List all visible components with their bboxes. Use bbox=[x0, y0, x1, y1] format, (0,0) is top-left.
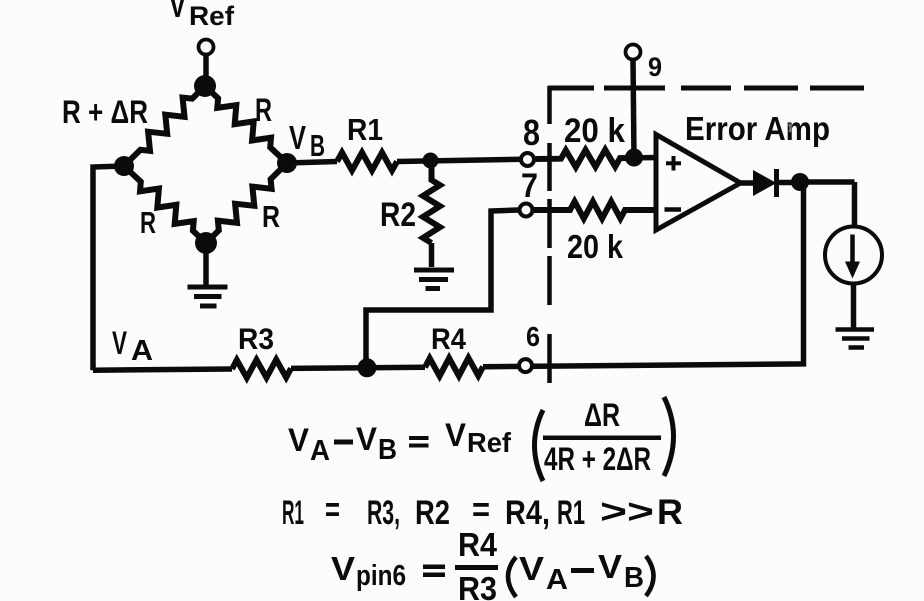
svg-text:V: V bbox=[598, 548, 622, 585]
svg-text:9: 9 bbox=[648, 52, 662, 82]
svg-text:B: B bbox=[624, 562, 644, 594]
node bridge top bbox=[194, 75, 216, 97]
svg-text:B: B bbox=[310, 128, 325, 163]
op-amp minus sign bbox=[665, 207, 682, 212]
svg-text:R: R bbox=[255, 92, 272, 128]
dashed boundary vertical bbox=[547, 86, 552, 383]
svg-text:R2: R2 bbox=[415, 494, 450, 532]
terminal VRef bbox=[199, 40, 214, 55]
svg-text:6: 6 bbox=[526, 321, 540, 352]
wire bottom VA bbox=[93, 369, 232, 370]
dashed boundary horizontal bbox=[548, 86, 864, 91]
resistor R (bridge left-bottom arm) bbox=[124, 166, 206, 243]
svg-text:R: R bbox=[262, 199, 280, 234]
label R+dR bbox=[62, 94, 148, 130]
equation 3: Vpin6 = R4/R3 (VA - VB) bbox=[331, 526, 654, 601]
svg-text:A: A bbox=[131, 335, 153, 367]
svg-text:R: R bbox=[140, 205, 156, 240]
ground R2 bbox=[414, 270, 454, 289]
label 8 bbox=[523, 112, 540, 153]
svg-text:20 k: 20 k bbox=[564, 112, 625, 150]
svg-text:=: = bbox=[325, 491, 340, 529]
resistor R+dR (bridge top-left arm) bbox=[124, 86, 205, 166]
node R1-R2 bbox=[423, 153, 439, 169]
label 20k top bbox=[564, 112, 625, 150]
svg-text:R4: R4 bbox=[458, 526, 498, 563]
wire feedback output to pin6 line bbox=[483, 182, 804, 367]
svg-text:8: 8 bbox=[523, 112, 540, 153]
svg-text:A: A bbox=[546, 564, 568, 596]
svg-text:7: 7 bbox=[521, 167, 538, 205]
wire to op-amp plus input bbox=[627, 155, 656, 161]
wire R1 to pin8 bbox=[397, 159, 536, 162]
svg-text:V: V bbox=[519, 550, 544, 587]
op-amp plus sign bbox=[666, 156, 681, 171]
node output bbox=[791, 173, 809, 191]
svg-text:pin6: pin6 bbox=[356, 560, 406, 592]
node bridge right VB bbox=[277, 153, 297, 173]
ground current source bbox=[836, 330, 875, 348]
wire bbox=[203, 55, 209, 86]
label 9 bbox=[648, 52, 662, 82]
op-amp U1 Error Amp bbox=[656, 135, 741, 231]
terminal pin8 bbox=[521, 153, 534, 166]
wire VB to R1 bbox=[287, 162, 337, 164]
svg-text:4R + 2ΔR: 4R + 2ΔR bbox=[544, 441, 651, 477]
resistor R (bridge bottom-right arm) bbox=[206, 163, 287, 243]
wire current source to ground bbox=[851, 284, 857, 330]
scan speck bbox=[789, 124, 791, 132]
node plus input bbox=[625, 149, 643, 167]
svg-text:R4: R4 bbox=[431, 323, 466, 356]
wire R2 to ground bbox=[429, 243, 435, 267]
terminal pin7 bbox=[520, 204, 533, 217]
svg-text:20 k: 20 k bbox=[567, 228, 624, 265]
node R3-R4 bbox=[358, 358, 377, 377]
resistor R4 bbox=[425, 358, 483, 376]
diode D1 bbox=[753, 170, 777, 196]
svg-text:V: V bbox=[331, 550, 355, 587]
resistor R3 bbox=[232, 360, 291, 378]
label Error Amp bbox=[685, 110, 830, 147]
svg-text:A: A bbox=[310, 435, 330, 467]
label R3 bbox=[238, 323, 274, 356]
wire op-amp output bbox=[740, 180, 755, 186]
resistor R2 bbox=[423, 166, 440, 243]
label R4 bbox=[431, 323, 466, 356]
svg-text:=: = bbox=[472, 491, 490, 529]
svg-text:R: R bbox=[657, 493, 683, 532]
resistor R1 bbox=[337, 153, 397, 171]
svg-text:R3: R3 bbox=[238, 323, 274, 356]
wire pin7 to inverting input bbox=[366, 210, 518, 368]
wire R3 to R4 bbox=[291, 367, 425, 368]
wire pin9 down bbox=[633, 60, 634, 157]
svg-text:R + ΔR: R + ΔR bbox=[62, 94, 148, 130]
svg-text:R3,: R3, bbox=[367, 494, 400, 532]
svg-text:R1: R1 bbox=[282, 494, 304, 532]
svg-text:V: V bbox=[356, 421, 378, 457]
equation 2: R1 = R3, R2 = R4, R1 >> R bbox=[282, 491, 683, 532]
svg-text:R1: R1 bbox=[557, 494, 585, 532]
svg-text:Ref: Ref bbox=[189, 1, 235, 31]
label 20k bottom bbox=[567, 228, 624, 265]
label R bottom-right bbox=[262, 199, 280, 234]
equation 1: VA - VB = VRef (dR / (4R+2dR)) bbox=[288, 397, 674, 481]
resistor R (bridge top-right arm) bbox=[205, 86, 287, 163]
svg-text:ΔR: ΔR bbox=[584, 397, 620, 433]
svg-text:V: V bbox=[288, 422, 310, 458]
svg-text:V: V bbox=[112, 325, 127, 361]
svg-text:V: V bbox=[289, 119, 306, 156]
svg-text:V: V bbox=[169, 0, 186, 25]
label VB bbox=[289, 119, 325, 163]
wire output to current source bbox=[800, 182, 855, 227]
label VRef bbox=[169, 0, 235, 31]
label R1 bbox=[347, 112, 383, 147]
label R bottom-left bbox=[140, 205, 156, 240]
resistor 20k top bbox=[536, 150, 627, 167]
wire diode to node bbox=[779, 180, 800, 186]
resistor 20k bottom bbox=[534, 202, 656, 219]
svg-text:V: V bbox=[445, 417, 467, 453]
svg-text:Ref: Ref bbox=[467, 427, 512, 458]
wire bridge bottom to ground bbox=[203, 252, 209, 286]
svg-text:Error Amp: Error Amp bbox=[685, 110, 830, 147]
label 7 bbox=[521, 167, 538, 205]
node bridge bottom bbox=[195, 232, 217, 254]
svg-text:B: B bbox=[378, 434, 397, 466]
terminal pin6 bbox=[519, 359, 532, 372]
node bridge left bbox=[114, 156, 134, 176]
svg-text:R4,: R4, bbox=[505, 494, 550, 532]
svg-text:>>: >> bbox=[600, 493, 654, 531]
label 6 bbox=[526, 321, 540, 352]
svg-text:R3: R3 bbox=[458, 570, 497, 601]
label R2 bbox=[380, 196, 416, 234]
label VA bbox=[112, 325, 153, 367]
svg-text:R2: R2 bbox=[380, 196, 416, 234]
svg-text:R1: R1 bbox=[347, 112, 383, 147]
wire left branch VA bbox=[93, 166, 124, 370]
label R top-right bbox=[255, 92, 272, 128]
current source I1 bbox=[825, 227, 882, 284]
ground bridge bbox=[188, 287, 228, 306]
terminal pin9 bbox=[626, 45, 641, 60]
